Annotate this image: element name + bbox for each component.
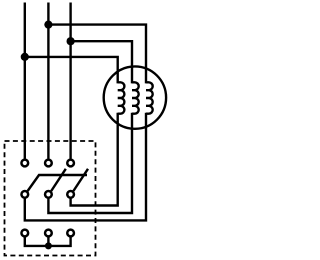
terminal contact T1 top: [21, 160, 28, 167]
terminal contact T3 top: [67, 160, 74, 167]
star contact N3: [67, 230, 74, 237]
wire star bus: [25, 237, 71, 246]
winding coil 2: [132, 82, 139, 113]
switch pole contact P3: [67, 191, 74, 198]
switch blade S1 with linkage bar: [28, 175, 87, 191]
wire L3 supply line: [69, 3, 71, 159]
switch enclosure dashed box: [5, 141, 96, 256]
switch blade S3: [73, 169, 88, 191]
terminal contact T2 top: [45, 160, 52, 167]
wire star stub N2: [47, 237, 49, 246]
wire from L3 tap to motor terminal V1: [71, 41, 132, 83]
node star point dot: [45, 242, 52, 249]
switch pole contact P1: [21, 191, 28, 198]
wire L1 supply line: [24, 3, 26, 159]
wire from L2 tap to motor terminal U1: [48, 25, 146, 84]
wire from coil 3 bottom to switch pole 1: [25, 113, 146, 221]
node junction dot on L2: [44, 21, 52, 29]
wire from coil 2 bottom to switch pole 2: [48, 113, 132, 213]
switch pole contact P2: [45, 191, 52, 198]
wire L2 supply line: [47, 3, 49, 159]
star contact N1: [21, 230, 28, 237]
wire from coil 1 bottom to switch pole 3: [71, 113, 118, 206]
switch blade S2: [51, 169, 66, 191]
winding coil 3: [146, 82, 153, 113]
motor M1 stator circle: [104, 66, 166, 128]
wire from L1 tap to motor terminal W1: [25, 57, 118, 84]
star contact N2: [45, 230, 52, 237]
node junction dot on L1: [21, 53, 29, 61]
winding coil 1: [118, 82, 125, 113]
node junction dot on L3: [67, 37, 75, 45]
